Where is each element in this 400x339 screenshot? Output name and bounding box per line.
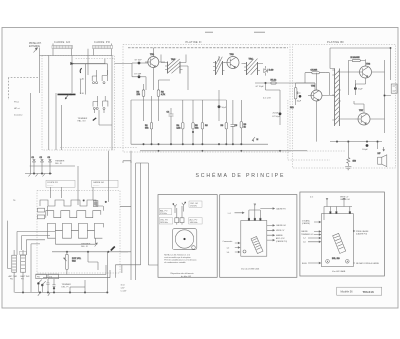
svg-text:1-6: 1-6 (227, 252, 230, 254)
label pile (9, 275, 31, 281)
svg-text:PRISE ANT.: PRISE ANT. (29, 42, 42, 45)
svg-text:1-40: 1-40 (80, 78, 85, 80)
wire BF misc (330, 47, 391, 113)
capacitor C4 electrolytic (132, 72, 146, 78)
label PLATINE FI (186, 40, 202, 44)
svg-text:25mW: 25mW (273, 113, 279, 115)
svg-text:PAL. GO: PAL. GO (78, 120, 87, 123)
trimmer cluster (175, 206, 184, 225)
wire vol dashed (288, 100, 330, 160)
label trimmer del FI3 (62, 284, 72, 289)
svg-text:Vue HF 9 ABB: Vue HF 9 ABB (332, 270, 346, 273)
transistor TR1 (145, 54, 159, 68)
wire feeders into box (51, 151, 109, 205)
title SCHEMA DE PRINCIPE (196, 172, 286, 179)
dashed box commutateur (37, 191, 120, 274)
wire meander row1 (40, 200, 107, 206)
terminals AAB (326, 258, 349, 263)
ground bus left (25, 173, 52, 177)
label PLATINE BF (327, 40, 344, 44)
resistor R7 (271, 80, 278, 85)
svg-text:TRIMMER GO: TRIMMER GO (301, 234, 314, 236)
capacitor C9 electrolytic (272, 104, 281, 125)
svg-text:C1: C1 (32, 157, 34, 159)
capacitor C dark mark (93, 118, 96, 121)
resistor R2 (137, 84, 145, 121)
connector blocks edge (37, 208, 44, 219)
pins top AAB (324, 198, 352, 220)
svg-text:C2: C2 (40, 157, 42, 159)
ground bus BF (330, 141, 382, 143)
diode row D3 (48, 157, 52, 166)
svg-text:GT 50μF: GT 50μF (256, 86, 265, 88)
capacitor C10 electrolytic (297, 95, 302, 102)
note text (164, 253, 196, 264)
capacitor C4b (167, 108, 174, 144)
value T-10 (80, 93, 85, 95)
resistor R5 (192, 100, 199, 144)
wire top connect (70, 161, 123, 287)
value 25mW (273, 113, 279, 115)
capacitor C13 electrolytic vertical (20, 250, 27, 281)
svg-text:ANT. THR: ANT. THR (9, 275, 18, 278)
resistor R11 (351, 56, 361, 62)
switch I1 (37, 280, 41, 285)
diode row D1 (32, 157, 36, 166)
svg-text:15 et: 15 et (121, 283, 126, 286)
wire maze lower rails (36, 252, 110, 278)
svg-text:CAST THR: CAST THR (20, 275, 30, 278)
diode D1 detector (264, 66, 274, 76)
svg-text:CADRE GO: CADRE GO (93, 181, 104, 184)
svg-text:R MASSE: R MASSE (351, 56, 361, 59)
svg-text:CADRE GO: CADRE GO (276, 224, 287, 227)
svg-text:MASSE: MASSE (276, 234, 283, 237)
capacitor C14 (47, 279, 50, 292)
box vue AAB (300, 192, 385, 276)
wire TR1 base net (115, 48, 281, 104)
capacitor CV1 trimmer (92, 70, 97, 84)
diode row D2 (40, 157, 44, 166)
svg-text:COUPE PO: COUPE PO (47, 182, 58, 184)
capacitor C7 (256, 86, 265, 88)
svg-text:⎯⎯⎯⎯⎯⎯: ⎯⎯⎯⎯⎯⎯ (47, 185, 54, 187)
svg-text:4 et: 4 et (310, 195, 314, 198)
svg-text:1-2: 1-2 (303, 238, 306, 240)
inductor L5 (93, 201, 98, 207)
ground symbol FI (252, 137, 258, 141)
svg-text:HP: HP (378, 153, 382, 155)
svg-text:BAL. PO: BAL. PO (160, 209, 168, 212)
svg-text:1-10: 1-10 (80, 93, 85, 95)
svg-text:TRL616: TRL616 (363, 290, 374, 294)
svg-text:PLATINE BF: PLATINE BF (327, 40, 344, 44)
svg-text:du condensateur variable: du condensateur variable (164, 261, 185, 264)
transistor TR6 (357, 64, 372, 79)
svg-text:Pile: Pile (37, 276, 40, 278)
svg-text:GT 50μF: GT 50μF (272, 116, 281, 118)
wire TR5 nets (305, 73, 335, 142)
ground bus bottom (15, 292, 109, 294)
svg-text:10μF: 10μF (297, 100, 302, 102)
wire det to pot (296, 83, 315, 90)
capacitor C8 electrolytic (218, 90, 227, 121)
dashed box oscillator section (42, 56, 115, 151)
resistor R6 (201, 100, 208, 144)
resistor R8 (221, 100, 228, 144)
value 4.5v (263, 98, 271, 100)
svg-text:C 4,5V: C 4,5V (121, 290, 128, 292)
svg-text:DEL. FI: DEL. FI (55, 163, 62, 165)
wire detector out (255, 82, 315, 84)
label osc po (159, 218, 172, 224)
ferrite mark (80, 68, 82, 73)
coil L2 CADRE PO (94, 41, 110, 44)
value 15V text (121, 283, 128, 292)
resistor R3 (157, 80, 170, 121)
svg-text:10k: 10k (195, 127, 198, 129)
wire meander row2 (46, 211, 101, 218)
svg-text:2 BLANC: 2 BLANC (302, 219, 311, 222)
svg-text:CADRE PO: CADRE PO (276, 207, 286, 210)
arrows right AAB (353, 230, 355, 263)
svg-text:L.O: L.O (228, 213, 232, 215)
node HP et ecouteur label (14, 101, 23, 117)
label LO (228, 212, 244, 215)
resistor R9 (240, 100, 247, 144)
transformer T3 FI2 (213, 56, 225, 75)
wire left riser (9, 78, 39, 101)
wire battery feeders (8, 221, 55, 293)
capacitor C11 electrolytic (354, 87, 363, 90)
svg-text:HP et: HP et (14, 107, 20, 110)
resistor R10 CH-GR (305, 69, 325, 73)
svg-text:4,5 1,5V: 4,5 1,5V (263, 98, 271, 100)
capacitor C15 (53, 279, 56, 292)
arrows left LS (235, 242, 240, 253)
capacitor C12 electrolytic (362, 144, 368, 151)
svg-text:BUL. RG: BUL. RG (332, 258, 340, 260)
wire osc verticals (49, 49, 112, 150)
capacitor CV2 trimmer (102, 70, 107, 84)
label acc po (189, 218, 202, 224)
wire antenna bus (30, 48, 112, 174)
wire meander row3 (47, 223, 103, 230)
label trimmer del FI2 (81, 243, 97, 248)
svg-text:CADRE GO: CADRE GO (54, 41, 71, 44)
wire bottom rail left (30, 166, 75, 174)
dashed box platine FI (123, 45, 290, 153)
svg-text:(CADRE): (CADRE) (302, 222, 310, 225)
svg-text:CADRE GO: CADRE GO (340, 198, 351, 201)
capacitor C3 electrolytic (132, 60, 148, 65)
note marks top (205, 31, 265, 34)
svg-text:sont raccordés que la réceptio: sont raccordés que la réception (164, 256, 190, 259)
transformer T5 driver (332, 69, 341, 127)
speaker HP (378, 142, 387, 167)
coil symbols top (173, 202, 186, 213)
svg-text:EXTERNE: EXTERNE (29, 46, 40, 48)
svg-text:⎯⎯⎯⎯⎯⎯: ⎯⎯⎯⎯⎯⎯ (93, 185, 100, 187)
transformer block AAB (322, 214, 354, 267)
svg-text:1kΩ: 1kΩ (290, 107, 294, 109)
svg-text:5kΩ: 5kΩ (72, 260, 76, 262)
svg-text:1-2: 1-2 (227, 247, 230, 249)
svg-text:DEL. FI: DEL. FI (62, 287, 69, 289)
caption vue AAB (332, 270, 346, 273)
svg-text:PO/1 les amplificateurs sur le: PO/1 les amplificateurs sur le dessous (164, 259, 196, 262)
svg-text:Vue du LS EB 5426: Vue du LS EB 5426 (241, 268, 260, 270)
svg-text:GT TAF: GT TAF (134, 72, 142, 75)
transistor TR5 (308, 86, 322, 102)
svg-text:50μF: 50μF (358, 89, 363, 91)
labels right AAB (356, 230, 380, 265)
wire FI mid rail (131, 100, 226, 144)
dashed box platine BF (293, 45, 396, 169)
svg-text:PRISE JAUNE: PRISE JAUNE (356, 230, 369, 233)
value 76 (13, 200, 16, 202)
wire riser columns (107, 252, 122, 293)
svg-text:1-6: 1-6 (303, 241, 306, 243)
svg-text:1400 kHz: 1400 kHz (190, 222, 198, 224)
labels left AAB (301, 219, 314, 264)
svg-text:PLATINE FI: PLATINE FI (186, 40, 202, 44)
wire osc junction (71, 56, 107, 94)
transformer T2 FI1 (161, 55, 186, 74)
label boxes small (36, 274, 59, 279)
node ANT: prise antenne exterieure label (29, 42, 42, 48)
svg-text:VERS CV: VERS CV (276, 230, 285, 232)
potentiometer P3 volume (64, 252, 82, 275)
svg-text:39k: 39k (145, 127, 148, 129)
box repartition elements (158, 195, 217, 278)
svg-text:1k: 1k (244, 126, 246, 128)
capacitor trimmers row2 (93, 96, 108, 113)
ferrite rod LS (243, 236, 263, 253)
capacitor C5 (231, 100, 238, 144)
svg-text:R7-1k: R7-1k (271, 80, 278, 82)
svg-text:CADRE: CADRE (301, 230, 308, 233)
labels top AAB (310, 195, 351, 200)
svg-text:Modèle 56: Modèle 56 (341, 290, 354, 294)
box vue LS (220, 195, 297, 278)
coil L1 CADRE GO (54, 41, 71, 44)
wire output nets (341, 59, 391, 133)
label osc go (189, 201, 202, 207)
wire bus mid maze (52, 251, 128, 253)
label bal po (159, 209, 172, 215)
caption vue LS (241, 268, 260, 270)
svg-text:du bloc HF: du bloc HF (181, 276, 192, 278)
caption repartition (171, 272, 194, 278)
wire coil leads (53, 44, 112, 56)
switch I2 (41, 281, 45, 286)
capacitor CV tuning gang (58, 94, 76, 100)
svg-text:(CADRE PO): (CADRE PO) (276, 240, 288, 243)
labels right LS (276, 207, 288, 242)
wire long verticals (115, 151, 158, 280)
svg-text:(CADRE PO): (CADRE PO) (356, 233, 368, 236)
wire meander row4 (47, 206, 103, 244)
wire osc dash rail (76, 58, 115, 60)
label box modele (337, 287, 382, 295)
transistor TR3 (224, 54, 239, 69)
pins top LS (248, 204, 261, 221)
svg-text:2,2k: 2,2k (177, 127, 181, 129)
wire long bottom rail (140, 150, 307, 151)
battery B1 pile (12, 250, 17, 281)
speaker HP face (172, 229, 196, 250)
wire osc mesh (71, 59, 105, 95)
svg-text:DEL. FI: DEL. FI (81, 246, 88, 248)
label header CADRE GO2 (92, 180, 119, 187)
antenna arrow (34, 48, 38, 53)
svg-text:Prise: Prise (14, 101, 20, 104)
svg-text:100μF: 100μF (362, 149, 368, 151)
svg-text:BLEU: BLEU (302, 263, 308, 265)
ferrite rod AAB (333, 233, 346, 253)
arrows right LS (260, 208, 274, 241)
labels left LS (223, 241, 233, 254)
svg-text:ANT. 4,5V: ANT. 4,5V (276, 237, 285, 240)
svg-text:Pile: Pile (10, 278, 13, 280)
wire FI top rail (128, 47, 288, 49)
label header COUPE PO (46, 180, 75, 187)
resistor R14 (347, 142, 357, 166)
potentiometer P1 volume (290, 83, 301, 109)
value 4-40 (80, 78, 85, 80)
svg-text:CH-GR: CH-GR (311, 69, 318, 71)
label trimmer del FI (55, 161, 65, 166)
transformer T4 FI3 (242, 59, 264, 75)
arrows left AAB (308, 221, 321, 264)
ground bus FI (131, 143, 268, 145)
svg-text:Répartition des éléments: Répartition des éléments (171, 272, 194, 275)
wire rail dashes left (60, 148, 345, 152)
resistor R4 (177, 100, 185, 144)
potentiometer P2 dark (111, 247, 115, 251)
svg-text:1620 kHz: 1620 kHz (160, 222, 168, 224)
svg-text:écouteur: écouteur (14, 114, 23, 117)
resistor R1 bias (145, 96, 153, 144)
ground symbol R14 (345, 167, 351, 170)
svg-text:CADRE PO: CADRE PO (94, 41, 110, 44)
svg-text:GT 34P: GT 34P (135, 60, 143, 62)
wire bus drops (14, 280, 85, 296)
label trimmer PAL GO (78, 118, 88, 123)
jack J1 ecouteur (391, 84, 397, 93)
svg-text:Commande: Commande (223, 241, 233, 243)
svg-text:SCHÉMA DE PRINCIPE: SCHÉMA DE PRINCIPE (196, 172, 286, 179)
transistor TR7 (355, 110, 370, 125)
svg-text:NE RACCORDE À CADRE: NE RACCORDE À CADRE (356, 262, 380, 265)
svg-text:ACC. PO: ACC. PO (190, 218, 198, 221)
svg-text:C3: C3 (48, 157, 50, 159)
transformer block LS (241, 221, 267, 257)
svg-text:NOTA: Les fils Trimmers 1 et 2: NOTA: Les fils Trimmers 1 et 2 (164, 253, 190, 256)
